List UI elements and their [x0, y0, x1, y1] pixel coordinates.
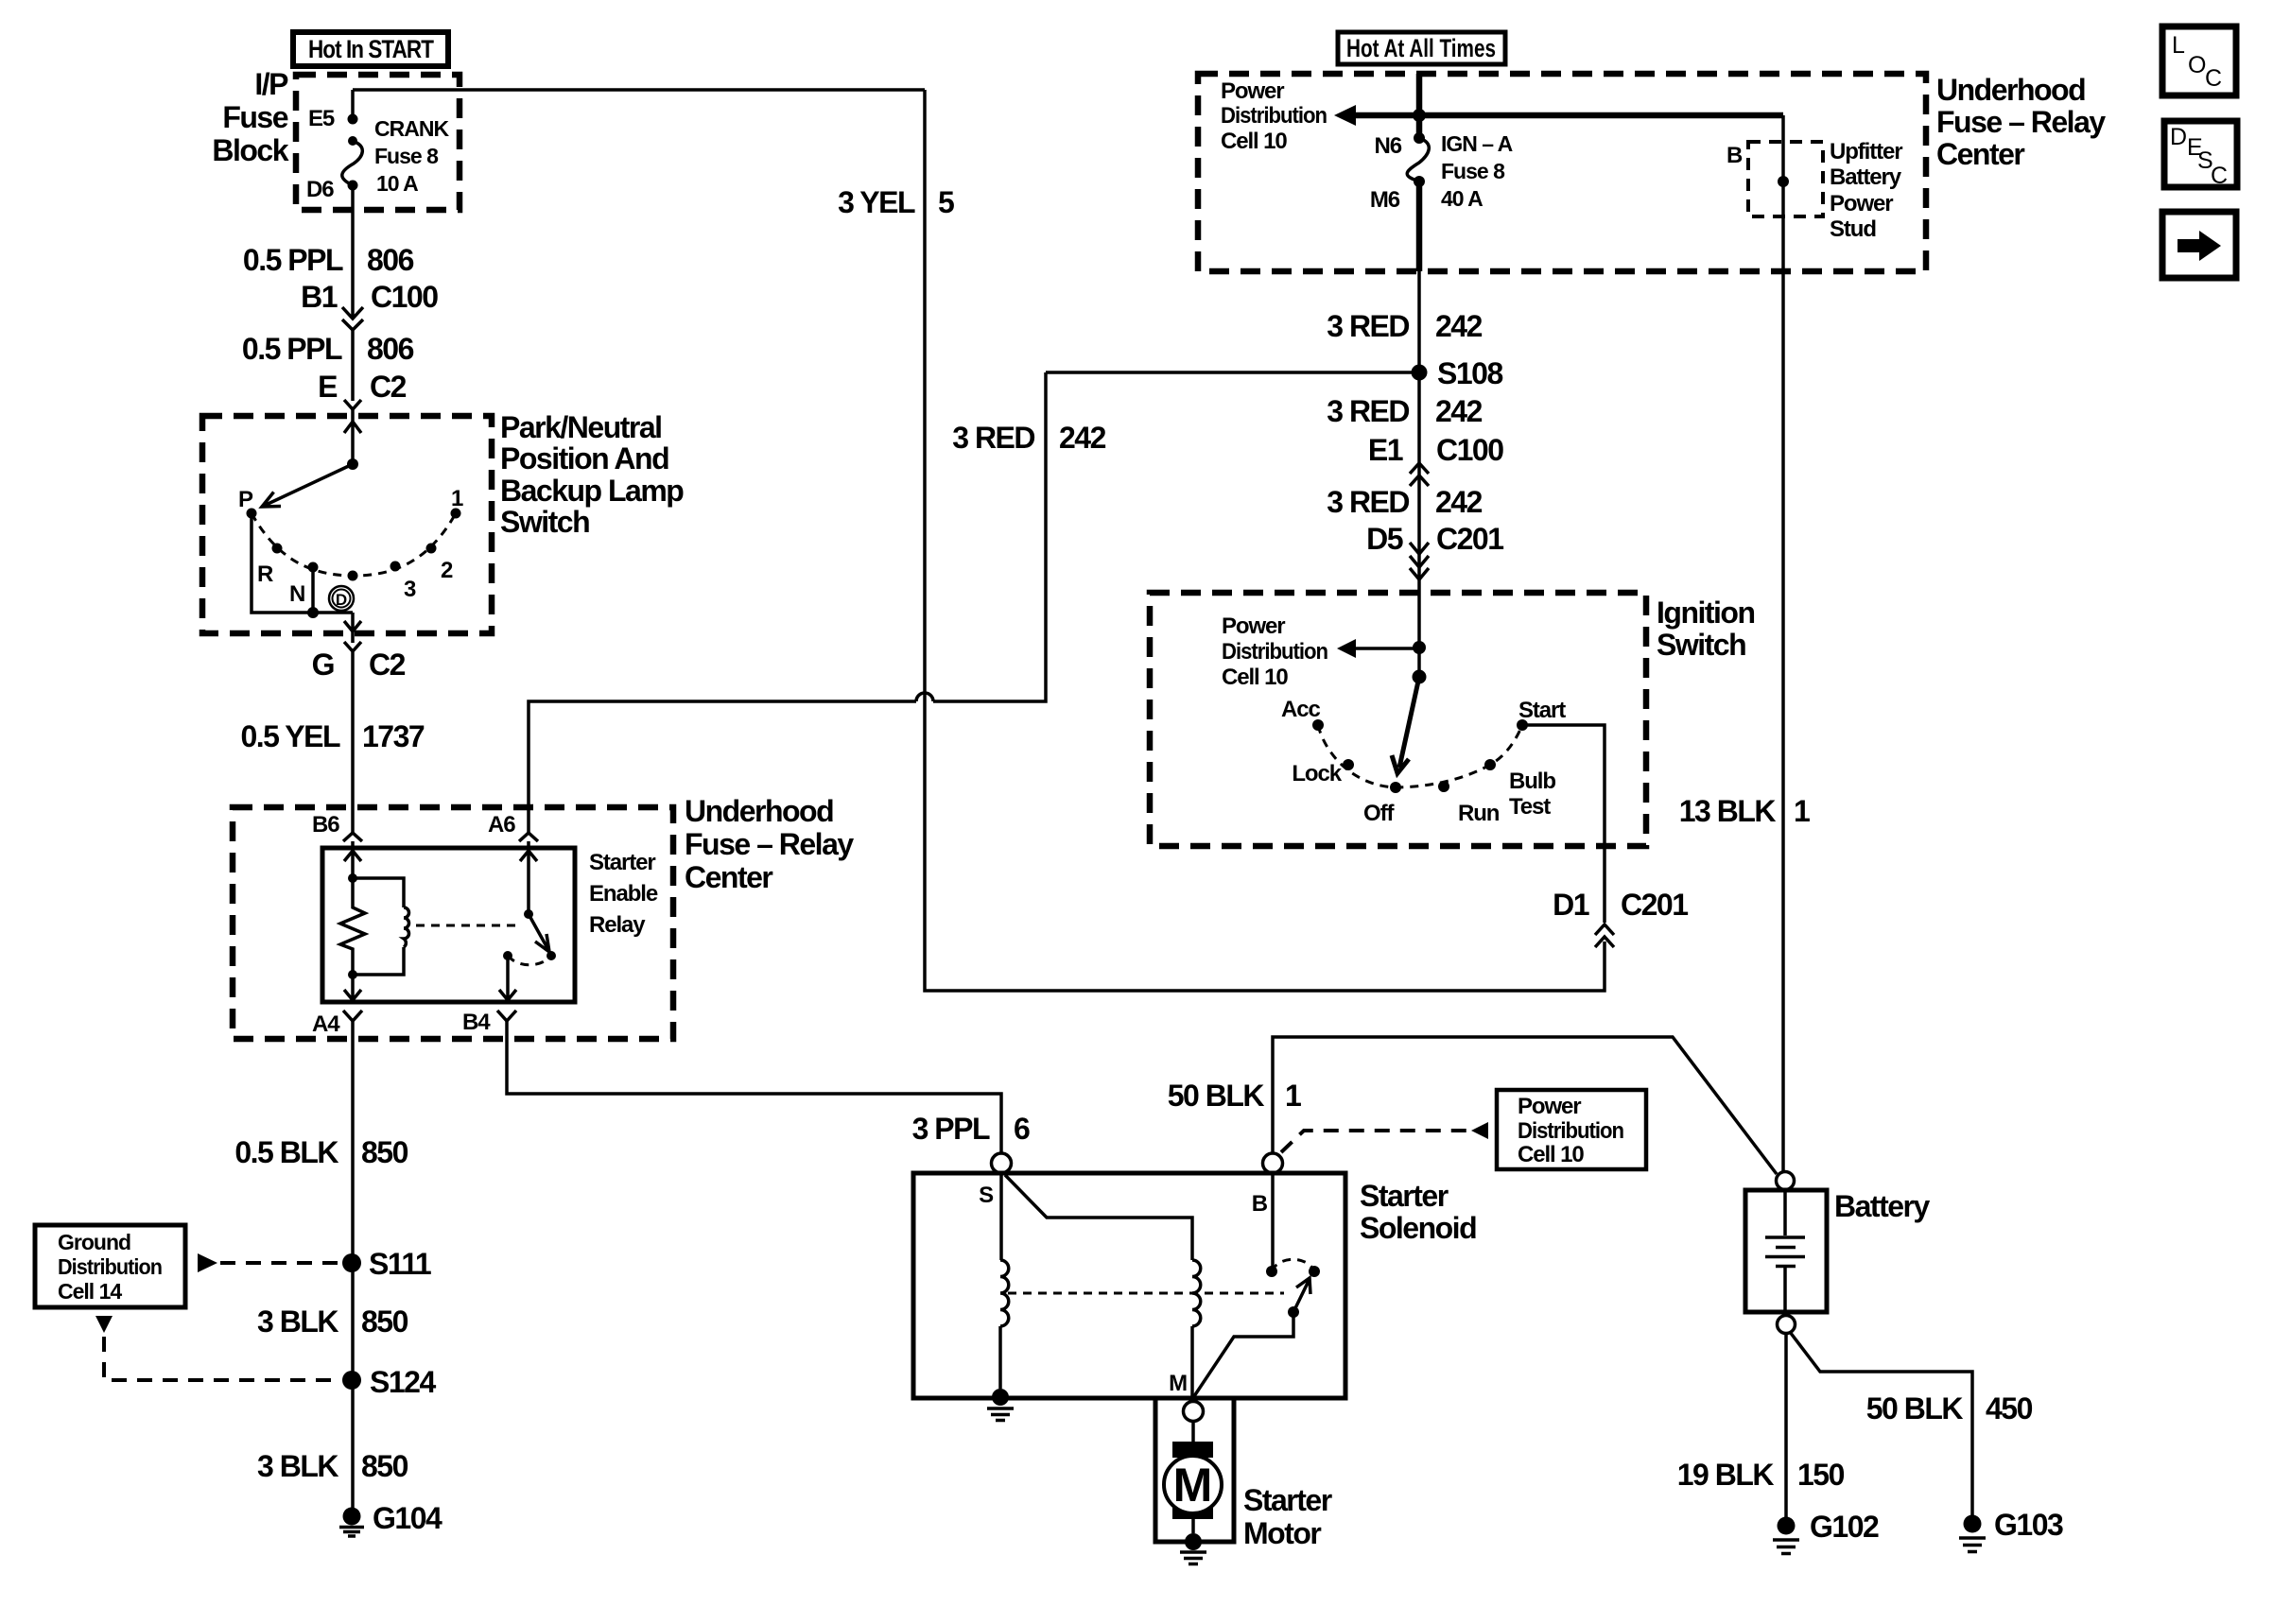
power distribution arrow (solenoid) — [1471, 1122, 1488, 1139]
contact Acc — [1312, 719, 1324, 731]
Starter Enable Relay label — [589, 850, 658, 938]
svg-text:50 BLK: 50 BLK — [1168, 1079, 1265, 1113]
Park/Neutral Position And Backup Lamp Switch label — [500, 410, 684, 539]
svg-text:L: L — [2172, 32, 2185, 59]
svg-text:C201: C201 — [1621, 888, 1688, 922]
wire into PNP switch with arrow — [344, 409, 361, 464]
svg-text:Starter: Starter — [1360, 1179, 1449, 1213]
svg-text:I/P: I/P — [254, 67, 288, 101]
label 0.5 PPL 806 second — [242, 332, 414, 366]
svg-text:C2: C2 — [369, 648, 406, 682]
motor ground symbol — [1180, 1552, 1206, 1564]
node M6 — [1414, 176, 1425, 187]
motor brush top — [1172, 1442, 1213, 1458]
svg-text:10 A: 10 A — [376, 171, 418, 196]
svg-text:C: C — [2205, 65, 2222, 92]
label 3 BLK 850 — [257, 1304, 408, 1339]
wire I/P fuse vertical — [351, 90, 355, 311]
svg-text:19 BLK: 19 BLK — [1677, 1458, 1775, 1492]
Starter Solenoid box — [913, 1173, 1345, 1398]
solenoid ground symbol — [987, 1408, 1014, 1421]
relay contact dashed arc — [508, 956, 551, 965]
motor brush bottom — [1172, 1503, 1213, 1519]
svg-text:450: 450 — [1986, 1391, 2033, 1425]
svg-text:50 BLK: 50 BLK — [1866, 1391, 1964, 1425]
contact Lock — [1343, 759, 1354, 770]
label 3 RED 242 (top) — [1327, 309, 1482, 343]
svg-text:B: B — [1252, 1191, 1268, 1217]
svg-text:3 PPL: 3 PPL — [912, 1112, 990, 1146]
svg-text:Battery: Battery — [1830, 164, 1902, 190]
svg-text:3 YEL: 3 YEL — [838, 185, 915, 219]
contact Bulb Test — [1484, 759, 1496, 770]
terminal B circle — [1263, 1153, 1283, 1173]
contact 2 — [426, 544, 437, 554]
svg-text:N6: N6 — [1375, 133, 1402, 159]
splice S124 — [342, 1371, 361, 1390]
wire B4 to starter solenoid S — [507, 1021, 1001, 1153]
svg-text:IGN – A: IGN – A — [1441, 131, 1513, 156]
coil (inductor) — [404, 907, 409, 947]
svg-text:Fuse – Relay: Fuse – Relay — [1936, 105, 2106, 139]
svg-text:E5: E5 — [308, 106, 335, 131]
svg-text:Enable: Enable — [589, 881, 658, 907]
svg-text:3 BLK: 3 BLK — [257, 1304, 338, 1339]
svg-text:Ignition: Ignition — [1657, 596, 1755, 630]
svg-text:Run: Run — [1458, 801, 1500, 826]
I/P Fuse Block label — [212, 67, 288, 167]
battery terminal top circle — [1777, 1172, 1795, 1190]
wire power distribution link (ignition) — [1356, 647, 1419, 650]
fuse value label IGN-A Fuse 8 40 A — [1441, 131, 1513, 211]
pin A6 — [488, 812, 538, 841]
svg-text:0.5 PPL: 0.5 PPL — [243, 243, 343, 277]
Starter Motor label — [1243, 1483, 1332, 1550]
svg-text:C: C — [2211, 163, 2228, 189]
svg-text:3 RED: 3 RED — [1327, 394, 1409, 428]
node D6 — [348, 181, 358, 191]
svg-text:D: D — [336, 591, 347, 609]
PNP wiper arrow to P — [262, 464, 353, 507]
solenoid contact dashed arc — [1272, 1259, 1314, 1271]
node E5 — [348, 114, 358, 125]
ground G102 — [1773, 1510, 1879, 1554]
node solenoid arm pivot — [1288, 1306, 1299, 1318]
svg-text:G: G — [312, 648, 334, 682]
svg-text:Power: Power — [1830, 191, 1893, 216]
wire battery negative to G103 — [1790, 1332, 1972, 1515]
wire P to output — [252, 513, 353, 613]
label 3 RED 242 (third) — [1327, 485, 1482, 519]
node relay switch common — [524, 909, 533, 919]
Underhood Fuse-Relay Center dashed box (right) — [1198, 74, 1926, 271]
ignition wiper arrow — [1392, 677, 1419, 773]
svg-text:Starter: Starter — [589, 850, 655, 875]
svg-text:242: 242 — [1435, 309, 1483, 343]
svg-text:Fuse – Relay: Fuse – Relay — [685, 827, 854, 861]
svg-text:850: 850 — [361, 1135, 408, 1169]
node relay coil bottom — [348, 970, 357, 979]
svg-text:150: 150 — [1797, 1458, 1845, 1492]
svg-text:Hot In START: Hot In START — [308, 35, 434, 63]
Power Distribution Cell 10 label (ignition) — [1222, 613, 1327, 690]
node PNP common — [347, 458, 358, 470]
svg-text:850: 850 — [361, 1449, 408, 1483]
node ignition junction 1 — [1413, 641, 1426, 654]
svg-text:242: 242 — [1435, 394, 1483, 428]
svg-text:806: 806 — [367, 332, 414, 366]
svg-text:A6: A6 — [488, 812, 515, 838]
svg-text:242: 242 — [1435, 485, 1483, 519]
contact Run — [1438, 781, 1449, 792]
svg-text:806: 806 — [367, 243, 414, 277]
relay coil wiring — [353, 878, 404, 975]
svg-text:P: P — [238, 487, 253, 512]
Underhood Fuse-Relay Center dashed box (left) — [233, 807, 673, 1039]
wire S diagonal to hold-in coil — [1005, 1175, 1192, 1260]
relay actuation dashed link — [416, 924, 521, 927]
wire A6 stub above box — [527, 841, 530, 848]
contact N — [308, 562, 319, 573]
solenoid coil 1 — [1000, 1260, 1009, 1326]
svg-text:Start: Start — [1518, 698, 1566, 723]
wire Start to C201 — [1522, 725, 1605, 923]
svg-text:0.5 BLK: 0.5 BLK — [234, 1135, 338, 1169]
node solenoid B contact — [1266, 1266, 1277, 1277]
Park/Neutral dashed box — [202, 416, 492, 633]
motor ground node — [1185, 1533, 1202, 1550]
svg-text:Fuse: Fuse — [222, 100, 287, 134]
DESC box — [2164, 121, 2237, 189]
svg-text:Switch: Switch — [1657, 628, 1745, 662]
Ignition Switch dashed box — [1150, 593, 1646, 846]
svg-text:Battery: Battery — [1834, 1189, 1930, 1223]
Ground Distribution Cell 14 box — [35, 1225, 185, 1307]
svg-text:M: M — [1173, 1459, 1213, 1512]
svg-text:B4: B4 — [462, 1010, 491, 1035]
svg-text:3 BLK: 3 BLK — [257, 1449, 338, 1483]
node relay arm tip — [547, 951, 556, 960]
node solenoid switch contact — [1309, 1266, 1320, 1277]
wire B6 stub above box — [351, 841, 355, 848]
svg-text:Off: Off — [1363, 801, 1395, 826]
label 13 BLK 1 — [1679, 794, 1810, 828]
svg-text:CRANK: CRANK — [374, 116, 449, 141]
svg-text:3: 3 — [404, 577, 416, 602]
power distribution arrow (ignition) — [1337, 639, 1356, 658]
svg-text:1: 1 — [1285, 1079, 1301, 1113]
fuse CRANK Fuse 8 — [342, 141, 363, 185]
svg-text:S124: S124 — [370, 1365, 436, 1399]
svg-text:3 RED: 3 RED — [952, 421, 1034, 455]
terminal M circle — [1184, 1402, 1204, 1422]
ground distribution down arrow — [95, 1316, 113, 1333]
wire S to pull-in coil — [999, 1173, 1003, 1260]
connector D1 C201 — [1553, 888, 1688, 947]
svg-text:Acc: Acc — [1281, 697, 1320, 722]
wire S108 branch to relay — [1046, 371, 1419, 374]
ground distribution dashed link to S124 — [104, 1337, 340, 1380]
svg-text:0.5 YEL: 0.5 YEL — [240, 719, 339, 753]
wire PNP exit arrow — [344, 613, 361, 631]
ground distribution arrow — [198, 1253, 217, 1272]
I/P Fuse Block dashed box — [296, 75, 460, 210]
contact Off — [1390, 782, 1401, 793]
svg-text:Distribution: Distribution — [58, 1254, 162, 1279]
svg-text:Cell 14: Cell 14 — [58, 1279, 122, 1304]
svg-text:Starter: Starter — [1243, 1483, 1332, 1517]
svg-text:Center: Center — [685, 860, 772, 894]
label 0.5 YEL 1737 — [240, 719, 424, 753]
svg-text:Power: Power — [1518, 1094, 1581, 1119]
svg-text:Switch: Switch — [500, 505, 589, 539]
Power Distribution Cell 10 label (top) — [1221, 78, 1327, 154]
ignition contact arc dashed — [1318, 725, 1522, 787]
wire battery negative to G102 — [1784, 1333, 1788, 1517]
node upfitter stud — [1778, 176, 1789, 187]
label 3 RED 242 (second) — [1327, 394, 1482, 428]
main feed vertical from Hot At All Times — [1416, 74, 1423, 271]
solenoid coil 2 — [1192, 1260, 1201, 1326]
wire coil 1 to ground — [998, 1326, 1002, 1389]
forward arrow box — [2162, 212, 2236, 278]
svg-text:Motor: Motor — [1243, 1516, 1321, 1550]
contact 1 — [451, 509, 461, 519]
svg-text:B6: B6 — [312, 812, 339, 838]
connector G C2 — [312, 631, 406, 700]
circled D symbol — [329, 586, 354, 611]
contact 3 — [390, 561, 401, 572]
svg-text:3 RED: 3 RED — [1327, 485, 1409, 519]
svg-text:C100: C100 — [1436, 433, 1503, 467]
wire 50 BLK 1 net — [1273, 1037, 1777, 1174]
relay switch moving arm — [529, 914, 549, 952]
svg-text:40 A: 40 A — [1441, 186, 1483, 211]
label 3 PPL 6 — [912, 1112, 1030, 1146]
svg-text:Underhood: Underhood — [685, 794, 833, 828]
label 50 BLK 1 — [1168, 1079, 1301, 1113]
svg-text:G104: G104 — [373, 1501, 442, 1535]
pin B4 — [462, 1010, 516, 1035]
svg-text:B1: B1 — [301, 280, 338, 314]
svg-text:G102: G102 — [1810, 1510, 1879, 1544]
wire 3 YEL horizontal from I/P fuse block to right — [353, 88, 925, 92]
svg-text:5: 5 — [938, 185, 954, 219]
label 0.5 BLK 850 — [234, 1135, 408, 1169]
ground G104 — [339, 1501, 442, 1536]
wire 0.5 YEL down to relay — [351, 700, 355, 833]
contact D — [348, 571, 358, 581]
svg-text:Solenoid: Solenoid — [1360, 1211, 1476, 1245]
svg-text:M6: M6 — [1370, 187, 1400, 213]
wire A6 up and right with hop over 3 YEL — [529, 372, 1046, 833]
wire motor to ground — [1191, 1513, 1195, 1533]
svg-text:G103: G103 — [1994, 1508, 2063, 1542]
Starter Motor box — [1155, 1398, 1234, 1542]
relay NO contact exit arrow to B4 — [499, 956, 516, 1000]
splice S111 — [342, 1253, 361, 1272]
svg-text:1: 1 — [451, 486, 463, 511]
svg-text:6: 6 — [1014, 1112, 1030, 1146]
svg-text:Bulb: Bulb — [1509, 769, 1555, 794]
svg-text:Block: Block — [212, 133, 288, 167]
svg-text:N: N — [289, 581, 304, 607]
svg-text:D6: D6 — [306, 177, 334, 202]
svg-text:D: D — [2170, 124, 2187, 150]
svg-text:850: 850 — [361, 1304, 408, 1339]
connector E C2 — [318, 370, 406, 409]
Hot In START box — [293, 32, 448, 66]
svg-text:Upfitter: Upfitter — [1830, 139, 1902, 164]
svg-text:Cell 10: Cell 10 — [1221, 129, 1287, 154]
LOC box — [2162, 26, 2236, 95]
svg-text:C100: C100 — [371, 280, 438, 314]
Underhood Fuse-Relay Center label (right) — [1936, 73, 2106, 171]
svg-text:D1: D1 — [1553, 888, 1589, 922]
battery cell symbol — [1765, 1190, 1805, 1312]
solenoid ground node — [992, 1389, 1009, 1406]
solenoid actuation dashed link — [1008, 1292, 1284, 1295]
svg-text:Power: Power — [1221, 78, 1284, 104]
node relay NO contact — [503, 951, 512, 960]
svg-text:M: M — [1169, 1371, 1187, 1396]
svg-text:Power: Power — [1222, 613, 1285, 639]
svg-text:13 BLK: 13 BLK — [1679, 794, 1777, 828]
label 0.5 PPL 806 — [243, 243, 414, 277]
battery terminal bottom circle — [1778, 1316, 1796, 1334]
Hot At All Times box — [1338, 32, 1505, 64]
node ignition junction 2 — [1413, 670, 1427, 684]
svg-text:Distribution: Distribution — [1518, 1118, 1623, 1144]
wire power distribution feed horizontal — [1356, 112, 1783, 119]
svg-text:E1: E1 — [1368, 433, 1403, 467]
Power Distribution Cell 10 box (solenoid) — [1497, 1090, 1646, 1169]
fuse value label CRANK Fuse 8 10 A — [374, 116, 449, 196]
svg-text:R: R — [257, 561, 273, 587]
pin B6 — [312, 812, 362, 841]
terminal S circle — [992, 1153, 1012, 1173]
svg-text:Distribution: Distribution — [1221, 103, 1327, 129]
svg-text:Underhood: Underhood — [1936, 73, 2085, 107]
svg-text:Position And: Position And — [500, 441, 668, 475]
svg-text:E: E — [318, 370, 338, 404]
svg-text:Hot At All Times: Hot At All Times — [1346, 34, 1496, 62]
svg-text:S108: S108 — [1437, 356, 1502, 390]
node feed junction — [1413, 109, 1426, 122]
svg-text:0.5 PPL: 0.5 PPL — [242, 332, 342, 366]
svg-text:C201: C201 — [1436, 522, 1503, 556]
svg-text:Backup Lamp: Backup Lamp — [500, 474, 684, 508]
splice S108 — [1412, 365, 1428, 381]
power distribution arrow (top) — [1334, 105, 1356, 126]
Ignition Switch label — [1657, 596, 1755, 662]
svg-text:S111: S111 — [369, 1247, 431, 1281]
svg-text:1: 1 — [1794, 794, 1810, 828]
relay coil exit arrow to A4 — [344, 975, 361, 1000]
label 50 BLK 450 — [1866, 1391, 2033, 1425]
label 3 RED 242 (on vertical 1106) — [952, 421, 1105, 455]
PNP contact arc dashed — [252, 513, 456, 576]
svg-text:Relay: Relay — [589, 912, 646, 938]
ground distribution dashed link to S111 — [220, 1261, 340, 1265]
svg-text:Distribution: Distribution — [1222, 639, 1327, 665]
wire B to contact — [1271, 1173, 1275, 1267]
wire coil 2 to M — [1190, 1326, 1194, 1396]
svg-text:Cell 10: Cell 10 — [1518, 1142, 1584, 1167]
Underhood Fuse-Relay Center label (left) — [685, 794, 854, 894]
svg-text:Ground: Ground — [58, 1230, 130, 1254]
connector B1 C100 — [301, 280, 438, 330]
svg-text:Fuse 8: Fuse 8 — [374, 144, 439, 168]
Starter Solenoid label — [1360, 1179, 1476, 1245]
svg-text:O: O — [2188, 52, 2206, 78]
pin A4 — [312, 1011, 362, 1037]
Upfitter Battery Power Stud dashed box — [1748, 142, 1823, 216]
node relay coil top — [348, 873, 357, 883]
wire M terminal to brush — [1191, 1422, 1195, 1442]
label 19 BLK 150 — [1677, 1458, 1845, 1492]
connector E1 C100 — [1368, 433, 1503, 486]
svg-text:Fuse 8: Fuse 8 — [1441, 159, 1505, 183]
fuse IGN-A — [1407, 138, 1429, 181]
svg-text:D5: D5 — [1366, 522, 1403, 556]
relay switch common from A6 — [520, 850, 537, 914]
resistor — [340, 878, 365, 975]
wire 3 YEL vertical down and across to C201 D1 — [925, 90, 1605, 991]
relay coil pin arrow (B6 side) — [344, 850, 361, 878]
svg-text:242: 242 — [1059, 421, 1106, 455]
svg-text:C2: C2 — [370, 370, 407, 404]
svg-text:A4: A4 — [312, 1011, 340, 1037]
motor circle M — [1164, 1456, 1222, 1513]
svg-text:Stud: Stud — [1830, 216, 1876, 242]
solenoid moving arm — [1194, 1278, 1310, 1396]
node PNP output junction — [307, 607, 319, 618]
power distribution dashed link (solenoid) — [1281, 1131, 1468, 1152]
svg-text:Test: Test — [1509, 794, 1551, 820]
label 3 YEL 5 — [838, 185, 954, 219]
svg-text:Park/Neutral: Park/Neutral — [500, 410, 662, 444]
svg-text:B: B — [1726, 143, 1743, 168]
wire A4 down to grounds — [351, 1021, 355, 1517]
Upfitter Battery Power Stud label — [1830, 139, 1902, 242]
svg-text:2: 2 — [441, 558, 453, 583]
svg-text:Cell 10: Cell 10 — [1222, 665, 1288, 690]
svg-text:S: S — [979, 1183, 994, 1208]
contact P — [247, 509, 257, 519]
connector D5 C201 — [1366, 522, 1503, 579]
svg-text:3 RED: 3 RED — [1327, 309, 1409, 343]
svg-text:1737: 1737 — [362, 719, 425, 753]
ground G103 — [1959, 1508, 2063, 1552]
svg-text:Lock: Lock — [1292, 761, 1342, 786]
label 3 BLK 850 second — [257, 1449, 408, 1483]
contact R — [272, 544, 283, 554]
contact Start — [1517, 719, 1528, 731]
node N6 — [1414, 132, 1425, 144]
svg-text:Center: Center — [1936, 137, 2024, 171]
Starter Enable Relay box — [322, 848, 575, 1002]
Battery box — [1745, 1190, 1827, 1312]
